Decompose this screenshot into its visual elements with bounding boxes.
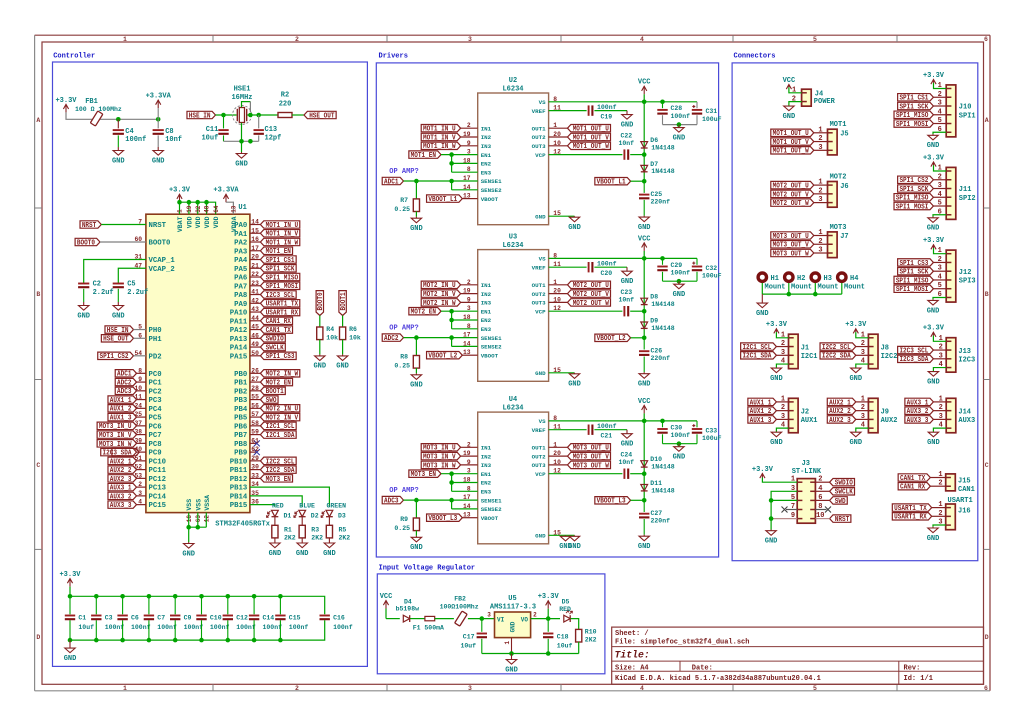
svg-text:+3.3V: +3.3V bbox=[766, 321, 788, 329]
ground GND under R1 bbox=[274, 542, 276, 544]
junction C10 top bbox=[199, 594, 204, 599]
svg-text:R9: R9 bbox=[400, 516, 408, 523]
svg-text:C5: C5 bbox=[127, 281, 135, 289]
label SPI1_CS2 at PD2 bbox=[98, 352, 134, 359]
svg-text:MOT1_IN_W: MOT1_IN_W bbox=[423, 143, 456, 151]
label MOT3_IN_W bbox=[421, 461, 460, 468]
label ADC1 bbox=[382, 177, 403, 184]
svg-text:GND: GND bbox=[927, 225, 940, 233]
svg-text:27: 27 bbox=[251, 376, 259, 383]
wire J1 pin1 bbox=[776, 332, 788, 338]
svg-text:R10: R10 bbox=[585, 629, 597, 636]
svg-text:J15: J15 bbox=[958, 477, 971, 485]
svg-text:20: 20 bbox=[251, 254, 259, 261]
label AUX3_2 at J14 bbox=[905, 407, 934, 414]
junction gnd rail 2 bbox=[546, 651, 551, 656]
wire J8 pin4 gnd bbox=[856, 364, 869, 367]
junction sense R bbox=[414, 498, 419, 503]
wire VCAP_1 bbox=[84, 260, 146, 284]
svg-text:10k: 10k bbox=[326, 334, 338, 341]
svg-text:2: 2 bbox=[295, 685, 299, 692]
label VBOOT_L2 left bbox=[427, 352, 463, 359]
label AUX2_2 at PC11 bbox=[137, 469, 146, 471]
label MOT2_IN_U at PB4 bbox=[250, 407, 261, 409]
svg-text:PB14: PB14 bbox=[230, 493, 248, 501]
diode D11 1N4148 bbox=[643, 474, 645, 501]
svg-text:PB6: PB6 bbox=[234, 423, 247, 431]
svg-text:C28: C28 bbox=[671, 105, 683, 112]
svg-text:GND: GND bbox=[568, 381, 581, 389]
label MOT1_EN at PA3 bbox=[250, 250, 261, 252]
svg-text:GND: GND bbox=[927, 307, 940, 315]
svg-text:MOT1_EN: MOT1_EN bbox=[411, 152, 436, 160]
power flag +3.3V out bbox=[547, 601, 549, 609]
svg-text:GND: GND bbox=[927, 142, 940, 150]
connector J1 I2C1 bbox=[789, 334, 799, 368]
junction C13 top bbox=[256, 113, 261, 118]
svg-text:AUX2_2: AUX2_2 bbox=[829, 408, 851, 416]
svg-text:32: 32 bbox=[195, 205, 202, 213]
label ADC2 at PC1 bbox=[137, 381, 146, 383]
junction J3 pin9 bbox=[769, 516, 774, 521]
svg-text:MOT2_OUT_V: MOT2_OUT_V bbox=[573, 291, 610, 299]
svg-text:Drivers: Drivers bbox=[379, 52, 408, 60]
junction C10 bottom bbox=[199, 638, 204, 643]
svg-text:10nf: 10nf bbox=[165, 136, 182, 144]
label USART1_TX at PA9 bbox=[250, 302, 261, 304]
svg-text:100nf: 100nf bbox=[157, 624, 177, 631]
svg-text:AUX1_2: AUX1_2 bbox=[750, 408, 772, 416]
junction gnd rail 1 bbox=[509, 651, 514, 656]
svg-text:MOT1_IN_U: MOT1_IN_U bbox=[423, 126, 456, 134]
capacitor C4 bbox=[117, 119, 119, 128]
power flag +3.3V at J13 bbox=[932, 332, 934, 335]
label MOT3_OUT_W at J7 bbox=[771, 249, 814, 256]
svg-text:MOT3_IN_U: MOT3_IN_U bbox=[99, 423, 132, 431]
svg-text:MOT3_IN_W: MOT3_IN_W bbox=[423, 462, 456, 470]
svg-text:B: B bbox=[985, 291, 989, 298]
label MOT1_OUT_U bbox=[568, 125, 611, 132]
label USART1_TX at J16 bbox=[892, 504, 931, 511]
sheet row ticks left bbox=[35, 207, 42, 209]
svg-text:44: 44 bbox=[251, 315, 259, 322]
svg-text:SPI1_CS3: SPI1_CS3 bbox=[899, 260, 928, 268]
wire NRST bbox=[101, 224, 146, 226]
svg-text:SPI1_MISO: SPI1_MISO bbox=[896, 112, 929, 120]
svg-text:GND: GND bbox=[112, 157, 125, 165]
ground GND bypass U4 bbox=[678, 444, 680, 447]
svg-text:D3: D3 bbox=[338, 512, 346, 519]
capacitor C7 bbox=[148, 596, 150, 614]
title block frame bbox=[612, 627, 984, 684]
svg-text:220: 220 bbox=[279, 101, 292, 109]
resistor R5 bbox=[326, 525, 332, 538]
svg-text:I2C2_SCL: I2C2_SCL bbox=[266, 458, 295, 466]
svg-text:GND: GND bbox=[568, 224, 581, 232]
svg-text:D8: D8 bbox=[650, 294, 658, 301]
junction bypass gnd bbox=[677, 122, 682, 127]
ground GND bypass U3 bbox=[678, 281, 680, 284]
label MOT2_EN at PB1 bbox=[250, 381, 261, 383]
capacitor C21 on VREF bbox=[549, 429, 587, 431]
LED D5 bbox=[564, 615, 570, 622]
svg-text:IN3: IN3 bbox=[481, 462, 492, 469]
svg-text:D: D bbox=[985, 634, 989, 641]
label MOT2_IN_U bbox=[421, 281, 460, 288]
svg-text:100nf: 100nf bbox=[184, 624, 204, 631]
svg-text:PA9: PA9 bbox=[234, 301, 247, 309]
wire VO rail bbox=[531, 618, 560, 620]
power flag VCC at J4 bbox=[788, 85, 790, 88]
label MOT2_OUT_U bbox=[568, 281, 611, 288]
svg-text:Mount: Mount bbox=[765, 284, 786, 292]
svg-text:AUX1_3: AUX1_3 bbox=[110, 414, 132, 422]
label AUX overlap at PC9 bbox=[112, 448, 139, 455]
svg-text:Date:: Date: bbox=[692, 664, 713, 672]
svg-text:56: 56 bbox=[251, 402, 259, 409]
label CAN1_TX at PA12 bbox=[250, 329, 261, 331]
svg-text:C15: C15 bbox=[289, 615, 301, 622]
svg-text:51: 51 bbox=[134, 455, 142, 462]
junction cap bank left bottom bbox=[68, 638, 73, 643]
svg-text:AUX1_2: AUX1_2 bbox=[110, 406, 132, 414]
svg-text:PC6: PC6 bbox=[149, 423, 162, 431]
label MOT2_IN_V bbox=[421, 290, 460, 297]
svg-text:100uF: 100uF bbox=[702, 116, 722, 123]
svg-text:I2C2_SDA: I2C2_SDA bbox=[822, 353, 852, 361]
junction crystal right bbox=[248, 113, 253, 118]
svg-text:MOT2_OUT_U: MOT2_OUT_U bbox=[773, 183, 809, 191]
label AUX1_1 at PC3 bbox=[137, 399, 146, 401]
capacitor C11 bbox=[223, 115, 225, 128]
svg-text:GND: GND bbox=[64, 655, 77, 663]
wire MOT2_EN link bbox=[441, 310, 478, 312]
svg-text:1N4148: 1N4148 bbox=[651, 464, 675, 471]
svg-text:PC2: PC2 bbox=[149, 388, 162, 396]
svg-text:PB7: PB7 bbox=[234, 432, 247, 440]
svg-text:PB8: PB8 bbox=[234, 441, 247, 449]
svg-text:BOOT1: BOOT1 bbox=[340, 292, 348, 310]
junction C15 top bbox=[278, 594, 283, 599]
ground GND under C4 bbox=[117, 147, 119, 151]
svg-text:PA14: PA14 bbox=[230, 345, 248, 353]
svg-text:USART1_TX: USART1_TX bbox=[266, 301, 299, 309]
label SPI1_MISO at J11 bbox=[894, 194, 933, 201]
wire D5 to R10 bbox=[571, 619, 579, 630]
ground GND under U1 bbox=[188, 542, 190, 544]
svg-text:C26: C26 bbox=[651, 348, 663, 355]
svg-text:EN3: EN3 bbox=[481, 326, 492, 333]
svg-text:+3.3VA: +3.3VA bbox=[213, 187, 239, 195]
wire J13 pin4 gnd bbox=[933, 368, 946, 371]
svg-text:+3.3V: +3.3V bbox=[923, 154, 945, 162]
svg-text:MOT1_IN_V: MOT1_IN_V bbox=[423, 134, 456, 142]
svg-text:R6: R6 bbox=[349, 326, 357, 333]
label SWDIO at PA13 bbox=[250, 337, 261, 339]
svg-text:U5: U5 bbox=[508, 595, 516, 603]
svg-text:GND: GND bbox=[269, 550, 282, 558]
svg-text:PA4: PA4 bbox=[234, 257, 248, 265]
connector J4 POWER bbox=[802, 89, 812, 106]
sheet column ticks top bbox=[212, 35, 214, 42]
svg-text:MOT2_OUT_W: MOT2_OUT_W bbox=[573, 300, 610, 308]
svg-text:PB13: PB13 bbox=[230, 485, 248, 493]
junction sense R bbox=[414, 179, 419, 184]
svg-text:PA12: PA12 bbox=[230, 327, 248, 335]
svg-text:PA7: PA7 bbox=[234, 283, 247, 291]
junction C7 bottom bbox=[147, 638, 152, 643]
svg-text:HSE_IN: HSE_IN bbox=[107, 327, 129, 335]
svg-text:AUX1_1: AUX1_1 bbox=[750, 399, 772, 407]
svg-text:GND: GND bbox=[152, 157, 165, 165]
svg-text:C25: C25 bbox=[651, 191, 663, 198]
mounting hole H4 bbox=[838, 273, 846, 281]
svg-text:HSE_OUT: HSE_OUT bbox=[309, 112, 334, 120]
svg-text:+3.3V: +3.3V bbox=[169, 187, 191, 195]
connector J10 SPI1 bbox=[946, 85, 956, 137]
junction C3 bottom bbox=[94, 638, 99, 643]
svg-text:100 Ω 100Mhz: 100 Ω 100Mhz bbox=[75, 106, 122, 113]
svg-text:3: 3 bbox=[818, 144, 822, 152]
svg-text:OUT1: OUT1 bbox=[532, 282, 546, 289]
svg-text:Mount: Mount bbox=[791, 284, 812, 292]
label SPI1_CS3 at PA15 bbox=[250, 355, 261, 357]
svg-text:57: 57 bbox=[251, 411, 259, 418]
label SWO at PB3 bbox=[250, 399, 261, 401]
svg-text:1: 1 bbox=[818, 126, 822, 134]
label I2C3_SDA at PC9 bbox=[137, 451, 146, 453]
svg-text:J13: J13 bbox=[958, 348, 971, 356]
label MOT1_EN bbox=[409, 151, 441, 158]
svg-text:STM32F405RGTx: STM32F405RGTx bbox=[215, 521, 270, 529]
junction VSS 2 bbox=[196, 525, 201, 530]
svg-text:VCC: VCC bbox=[783, 77, 796, 85]
crystal HSE1 bbox=[233, 106, 252, 125]
wire VCAP_2 bbox=[118, 268, 146, 283]
svg-text:RED: RED bbox=[559, 606, 571, 613]
svg-text:PC15: PC15 bbox=[149, 502, 167, 510]
power flag +3.3V bbox=[65, 104, 67, 112]
svg-text:100uF: 100uF bbox=[702, 273, 722, 280]
svg-text:OUT3: OUT3 bbox=[532, 300, 546, 307]
label MOT1_OUT_V at J5 bbox=[771, 138, 814, 145]
ground GND at J16 bbox=[932, 527, 934, 528]
power flag VCC U2 bbox=[643, 86, 645, 94]
wire VS rail U3 bbox=[549, 257, 697, 259]
svg-text:4: 4 bbox=[640, 36, 644, 43]
label AUX1_3 at J2 bbox=[748, 416, 777, 423]
ground GND pin U3 bbox=[574, 373, 576, 374]
svg-text:Mount: Mount bbox=[818, 284, 839, 292]
svg-text:C9: C9 bbox=[184, 615, 192, 622]
svg-text:PB2: PB2 bbox=[234, 388, 247, 396]
label MOT1_IN_V bbox=[421, 133, 460, 140]
svg-text:AUX2_3: AUX2_3 bbox=[829, 417, 851, 425]
svg-text:100nf: 100nf bbox=[289, 624, 309, 631]
label SPI1_MOSI at J12 bbox=[894, 285, 933, 292]
label HSE_OUT bbox=[304, 111, 336, 118]
label MOT3_IN_V bbox=[421, 452, 460, 459]
svg-text:SPI2: SPI2 bbox=[959, 195, 976, 203]
svg-text:MOT2_IN_W: MOT2_IN_W bbox=[423, 300, 456, 308]
label MOT1_OUT_W at J5 bbox=[771, 147, 814, 154]
wire +3.3V rail bbox=[66, 112, 158, 119]
svg-text:+3.3V: +3.3V bbox=[923, 72, 945, 80]
capacitor C9 bbox=[174, 596, 176, 614]
capacitor C31 polarized bbox=[696, 102, 698, 108]
svg-text:AMS1117-3.3: AMS1117-3.3 bbox=[490, 604, 536, 612]
svg-text:SPI1_CS1: SPI1_CS1 bbox=[266, 257, 295, 265]
svg-text:3: 3 bbox=[818, 196, 822, 204]
label MOT1_IN_V at PA1 bbox=[250, 232, 261, 234]
label MOT1_OUT_U at J5 bbox=[771, 129, 814, 136]
svg-text:GND: GND bbox=[849, 375, 862, 383]
junction EN2 bbox=[449, 480, 454, 485]
label USART1_RX at J16 bbox=[892, 513, 931, 520]
junction C14 bottom bbox=[252, 638, 257, 643]
svg-text:10: 10 bbox=[134, 385, 142, 392]
svg-text:J3: J3 bbox=[802, 460, 810, 468]
svg-text:VBAT: VBAT bbox=[177, 216, 184, 232]
svg-text:AUX3_1: AUX3_1 bbox=[907, 399, 929, 407]
svg-text:IN3: IN3 bbox=[481, 300, 492, 307]
wire MOT1_EN link bbox=[441, 154, 478, 156]
capacitor C5 bbox=[113, 283, 124, 285]
svg-text:GND: GND bbox=[535, 533, 546, 540]
svg-text:SPI1_SCK: SPI1_SCK bbox=[899, 186, 929, 194]
svg-text:VREF: VREF bbox=[532, 108, 546, 115]
svg-text:220nf: 220nf bbox=[651, 517, 671, 524]
svg-text:IN3: IN3 bbox=[481, 143, 492, 150]
junction C3 top bbox=[94, 594, 99, 599]
svg-text:IN2: IN2 bbox=[481, 291, 492, 298]
label I2C2_SCL at J8 bbox=[820, 343, 856, 350]
svg-text:PA15: PA15 bbox=[230, 353, 248, 361]
wire J4 pin1 bbox=[789, 87, 802, 93]
resistor R4 bbox=[317, 327, 323, 340]
ground GND under R7 bbox=[415, 217, 417, 219]
label AUX1_1 at J2 bbox=[748, 398, 777, 405]
svg-text:PC12: PC12 bbox=[149, 476, 167, 484]
wire crystal right bbox=[247, 114, 278, 116]
svg-text:Id: 1/1: Id: 1/1 bbox=[904, 675, 933, 683]
svg-text:GND: GND bbox=[410, 544, 423, 552]
svg-text:IN2: IN2 bbox=[481, 134, 492, 141]
svg-text:MOT1_OUT_W: MOT1_OUT_W bbox=[573, 143, 610, 151]
svg-text:SWD: SWD bbox=[835, 498, 846, 506]
svg-text:EN2: EN2 bbox=[481, 317, 492, 324]
label HSE_IN at PH0 bbox=[105, 326, 134, 333]
wire J3 pin5 bbox=[771, 499, 797, 501]
svg-text:MOT3_IN_U: MOT3_IN_U bbox=[423, 445, 456, 453]
connector J11 SPI2 bbox=[946, 167, 956, 219]
wire J3 pin9 bbox=[771, 518, 797, 520]
svg-text:I2C1: I2C1 bbox=[801, 353, 818, 361]
svg-text:H3: H3 bbox=[824, 275, 832, 283]
svg-text:I2C2: I2C2 bbox=[881, 353, 898, 361]
svg-text:H1: H1 bbox=[771, 275, 779, 283]
svg-text:VBOOT: VBOOT bbox=[481, 352, 499, 359]
svg-text:AUX2_1: AUX2_1 bbox=[110, 458, 132, 466]
svg-text:MOT1_IN_W: MOT1_IN_W bbox=[266, 239, 299, 247]
svg-text:39: 39 bbox=[134, 437, 142, 444]
mounting hole H1 bbox=[758, 273, 766, 281]
ground GND under C5 bbox=[117, 302, 119, 306]
svg-text:+3.3V: +3.3V bbox=[845, 321, 867, 329]
label MOT3_IN_U at PC6 bbox=[137, 425, 146, 427]
svg-text:C6: C6 bbox=[131, 615, 139, 622]
svg-text:U3: U3 bbox=[509, 234, 517, 242]
Input Voltage Regulator section box bbox=[377, 574, 605, 674]
svg-text:SPI1_MOSI: SPI1_MOSI bbox=[266, 283, 299, 291]
svg-text:MOT1_EN: MOT1_EN bbox=[266, 248, 291, 256]
svg-text:GND: GND bbox=[235, 160, 248, 168]
svg-text:10k: 10k bbox=[349, 334, 361, 341]
svg-text:SWO: SWO bbox=[266, 397, 277, 405]
svg-text:SPI1_MOSI: SPI1_MOSI bbox=[896, 286, 929, 294]
label SPI1_CS1 at PA4 bbox=[250, 259, 261, 261]
capacitor C10 bbox=[201, 596, 203, 614]
svg-text:C: C bbox=[985, 462, 989, 469]
svg-text:OUT2: OUT2 bbox=[532, 291, 546, 298]
svg-text:31: 31 bbox=[134, 254, 142, 261]
svg-text:PH0: PH0 bbox=[149, 327, 162, 335]
ground GND IVR bbox=[511, 654, 513, 660]
svg-text:J7: J7 bbox=[840, 233, 848, 241]
svg-text:2K2: 2K2 bbox=[284, 534, 296, 541]
label SPI1_MISO at J10 bbox=[894, 111, 933, 118]
svg-text:NRST: NRST bbox=[82, 222, 96, 230]
svg-text:MOT2_EN: MOT2_EN bbox=[411, 309, 436, 317]
svg-text:MOT1_IN_U: MOT1_IN_U bbox=[266, 222, 299, 230]
svg-text:MOT2_EN: MOT2_EN bbox=[266, 379, 291, 387]
svg-text:29: 29 bbox=[251, 455, 259, 462]
capacitor C14 bbox=[253, 596, 255, 614]
svg-text:C30: C30 bbox=[671, 424, 683, 431]
label I2C1_SCL at J1 bbox=[741, 343, 777, 350]
svg-text:VCP: VCP bbox=[535, 152, 546, 159]
ground GND at J3 bbox=[770, 530, 772, 531]
label MOT3_OUT_W bbox=[568, 461, 611, 468]
svg-text:EN1: EN1 bbox=[481, 471, 492, 478]
svg-text:PA2: PA2 bbox=[234, 240, 247, 248]
svg-text:MOT1_IN_V: MOT1_IN_V bbox=[266, 231, 299, 239]
junction VCC-VS bbox=[642, 256, 647, 261]
svg-text:SPI1_MISO: SPI1_MISO bbox=[896, 195, 929, 203]
label I2C3_SCL at PA8 bbox=[250, 294, 261, 296]
svg-text:100nf: 100nf bbox=[236, 624, 256, 631]
ground GND under R4 bbox=[319, 354, 321, 356]
label CAN1_RX at PA11 bbox=[250, 320, 261, 322]
svg-text:100nf: 100nf bbox=[125, 136, 146, 144]
svg-text:2: 2 bbox=[818, 187, 822, 195]
svg-text:AUX3_3: AUX3_3 bbox=[907, 417, 929, 425]
svg-text:GND: GND bbox=[765, 538, 778, 546]
svg-text:PC13: PC13 bbox=[149, 485, 167, 493]
svg-text:J2: J2 bbox=[801, 408, 809, 416]
diode D10 1N4148 bbox=[643, 421, 645, 474]
svg-text:J6: J6 bbox=[840, 183, 848, 191]
no-connect J3 pin8 bbox=[815, 509, 826, 511]
wire J13 pin1 bbox=[933, 336, 946, 342]
svg-text:VO: VO bbox=[521, 616, 529, 623]
capacitor C1 bbox=[69, 596, 71, 614]
connector J9 AUX2 bbox=[868, 398, 878, 432]
ground GND under C2 bbox=[83, 302, 85, 306]
svg-text:MOT2_IN_U: MOT2_IN_U bbox=[266, 406, 299, 414]
power flag +3.3VA bbox=[157, 100, 159, 108]
svg-text:3: 3 bbox=[138, 490, 142, 497]
